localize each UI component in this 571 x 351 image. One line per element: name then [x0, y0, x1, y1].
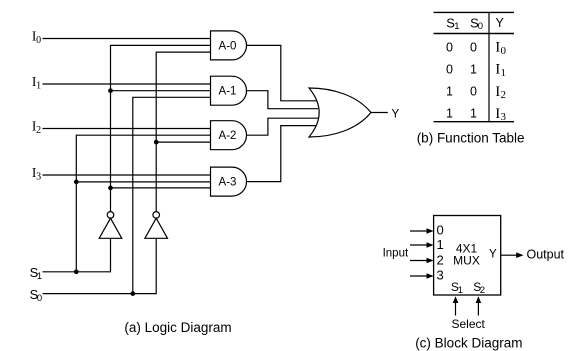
- svg-text:Output: Output: [527, 247, 565, 261]
- svg-text:0: 0: [446, 40, 453, 54]
- svg-text:A-3: A-3: [219, 177, 237, 189]
- svg-text:Y: Y: [392, 109, 400, 121]
- svg-text:3: 3: [36, 171, 41, 182]
- svg-text:0: 0: [36, 35, 41, 46]
- svg-text:MUX: MUX: [453, 254, 480, 268]
- svg-text:A-1: A-1: [219, 86, 237, 98]
- svg-text:(b) Function Table: (b) Function Table: [417, 130, 525, 145]
- svg-text:1: 1: [437, 237, 444, 252]
- svg-text:2: 2: [480, 285, 485, 296]
- svg-text:(a) Logic Diagram: (a) Logic Diagram: [124, 320, 231, 335]
- svg-text:0: 0: [37, 293, 42, 304]
- svg-text:1: 1: [470, 62, 477, 76]
- svg-text:Input: Input: [383, 248, 409, 260]
- svg-text:2: 2: [36, 125, 41, 136]
- svg-text:Y: Y: [489, 249, 497, 261]
- svg-text:1: 1: [446, 85, 453, 99]
- svg-text:0: 0: [437, 223, 444, 238]
- svg-text:(c) Block Diagram: (c) Block Diagram: [415, 336, 522, 351]
- svg-text:A-0: A-0: [219, 40, 237, 52]
- svg-text:1: 1: [37, 271, 42, 282]
- svg-text:2: 2: [437, 253, 444, 268]
- svg-text:Select: Select: [452, 317, 486, 331]
- svg-text:3: 3: [437, 268, 444, 283]
- svg-text:1: 1: [36, 80, 41, 91]
- svg-text:1: 1: [501, 67, 507, 79]
- svg-text:1: 1: [454, 21, 459, 32]
- svg-text:0: 0: [501, 45, 507, 57]
- svg-text:A-2: A-2: [219, 130, 237, 142]
- svg-text:2: 2: [501, 89, 507, 101]
- svg-text:3: 3: [501, 111, 507, 123]
- svg-text:Y: Y: [496, 16, 505, 30]
- svg-text:0: 0: [478, 21, 483, 32]
- svg-text:1: 1: [470, 107, 477, 121]
- svg-text:1: 1: [458, 285, 463, 296]
- svg-text:1: 1: [446, 107, 453, 121]
- svg-text:0: 0: [470, 85, 477, 99]
- svg-text:0: 0: [446, 62, 453, 76]
- svg-text:0: 0: [470, 40, 477, 54]
